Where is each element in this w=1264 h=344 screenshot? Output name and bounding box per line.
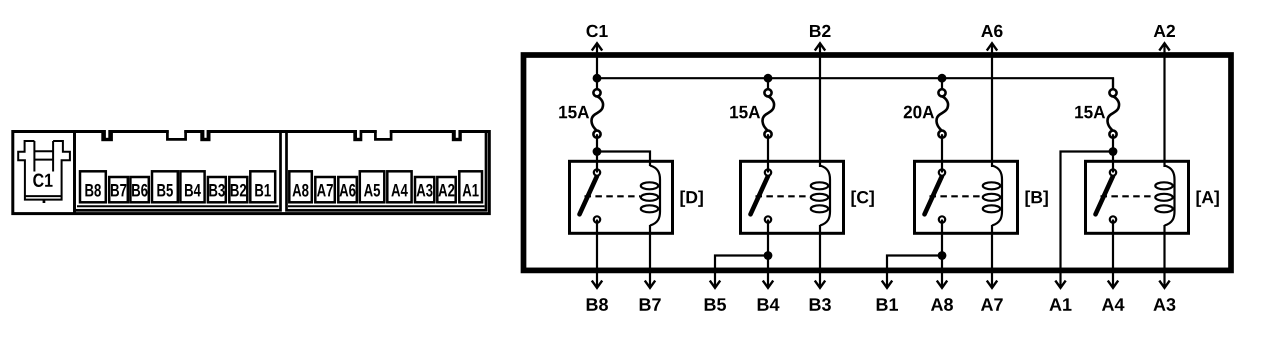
connector pin B1 [250,171,275,202]
terminal B1 (bottom arrow) [877,281,898,311]
terminal A4 (bottom arrow) [1102,281,1124,311]
wire: relay C coil to terminal B3 [819,225,821,288]
wire: fuse B output to relay B switch [941,134,943,172]
connector pin B7 [109,177,128,202]
terminal A8 (bottom arrow) [931,281,953,311]
connector pin B6 [130,177,148,202]
relay C [741,161,874,233]
wire: relay A switch to terminal A4 [1112,220,1114,288]
wire: feed bus from C1 to fuses [597,78,1113,93]
connector pin B3 [208,177,226,202]
connector pin A7 [315,177,335,202]
wire: relay D coil to terminal B7 [649,225,651,288]
fuse 15A (relay C) [730,78,774,138]
connector pin A2 [437,177,455,202]
junction: relay B switch output [938,251,947,260]
junction: relay C switch output [764,251,773,260]
connector B-half keying notch [167,129,185,140]
connector body half A [287,132,487,211]
wire: fuse C output to relay C switch [767,134,769,172]
connector label C1 [33,174,52,187]
junction: fuse D output [593,147,602,156]
connector pin A3 [415,177,434,202]
junction: bus at fuse D [593,74,602,83]
connector pin A1 [459,171,482,202]
terminal A2 (top arrow) [1154,25,1175,167]
terminal B3 (bottom arrow) [810,281,831,311]
relay A [1086,161,1219,233]
fuse 20A (relay B) [904,78,948,138]
wire: relay C switch to terminal B4 [767,220,769,288]
connector pin row underline A [288,205,485,207]
connector pin A4 [387,171,411,202]
wire: relay A coil to terminal A3 [1163,225,1165,288]
connector A-half keying tab 2 [452,129,462,142]
connector pin B8 [80,171,106,202]
relay B [915,161,1048,233]
connector B-half keying tab 2 [200,129,210,142]
terminal A7 (bottom arrow) [981,281,1003,311]
wire: jumper to terminal B1 [887,256,942,288]
terminal B4 (bottom arrow) [758,281,780,311]
connector B-half keying tab 1 [101,129,113,142]
connector A-half keying tab 1 [353,129,362,142]
terminal B7 (bottom arrow) [640,281,661,311]
connector A-half keying notch [375,129,391,140]
connector C1 keyway symbol [18,141,70,203]
junction: bus at fuse C [764,74,773,83]
wire: fuse A output to relay A switch [1112,134,1114,172]
relay D [570,161,703,233]
wire: relay B switch to terminal A8 [941,220,943,288]
terminal A3 (bottom arrow) [1153,281,1175,311]
wire: relay D switch to terminal B8 [596,220,598,288]
wire: jumper to terminal B5 [715,256,768,288]
connector pin B4 [180,171,204,202]
connector C1 keyway compartment divider [73,132,76,214]
wire: relay B coil to terminal A7 [991,225,993,288]
connector body half B [75,132,281,211]
connector pin A6 [338,177,357,202]
fuse 15A (relay D) [559,78,603,138]
wire: fuse A output jumper to terminal A1 [1061,152,1114,288]
terminal C1 (top arrow) [587,25,608,78]
connector pin B5 [152,171,178,202]
terminal B5 (bottom arrow) [705,281,726,311]
relay center border [524,55,1232,270]
connector C1 outer outline [13,132,490,214]
terminal B8 (bottom arrow) [587,281,608,311]
wire: fuse D output jumper to relay D coil [597,152,650,167]
terminal B2 (top arrow) [810,25,830,167]
wire: fuse D output to relay D switch [596,134,598,172]
connector pin row underline B [77,205,279,207]
fuse 15A (relay A) [1075,78,1119,138]
terminal A1 (bottom arrow) [1049,281,1071,311]
junction: bus at fuse B [938,74,947,83]
terminal A6 (top arrow) [981,25,1002,167]
junction: fuse A output [1109,147,1118,156]
connector pin A5 [360,171,385,202]
connector pin A8 [289,171,312,202]
connector pin B2 [229,177,247,202]
